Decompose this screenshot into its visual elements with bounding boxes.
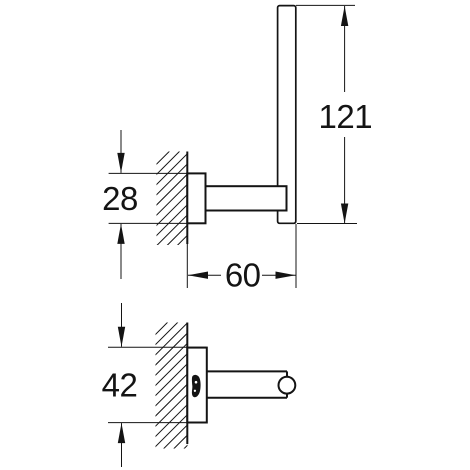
dimension 42 top extension line <box>108 346 207 348</box>
dimension 121 top extension line <box>296 4 355 6</box>
dimension 60 right extension line <box>295 224 297 288</box>
dimension 28 upper pointer with down arrow <box>117 130 124 173</box>
dimension 28 top extension line <box>109 172 187 174</box>
dimension 60 line with right arrow <box>262 272 296 279</box>
dimension 121 bottom extension line <box>297 223 357 225</box>
svg-text:42: 42 <box>102 367 138 404</box>
GROHE logo on plate (view 2) <box>192 375 201 397</box>
wall face line (view 2) <box>186 323 188 445</box>
dimension 28 lower pointer with up arrow <box>117 224 124 279</box>
wall plate (view 2) <box>187 348 207 423</box>
dimension 60 line with left arrow <box>188 272 221 279</box>
svg-text:60: 60 <box>225 256 261 293</box>
dimension 42 bottom extension line <box>108 422 207 424</box>
wall hatching (view 1) <box>130 91 230 303</box>
svg-text:28: 28 <box>102 180 138 217</box>
wall plate (view 1) <box>187 173 205 223</box>
dimension 121 line upper segment with up arrow <box>341 6 348 92</box>
dimension 42 upper pointer with down arrow <box>118 303 125 347</box>
arm (view 1) <box>206 186 287 210</box>
vertical bar (holder rod, view 1) <box>278 6 296 224</box>
dimension 60 left extension line (wall face continuation) <box>186 244 188 288</box>
svg-text:121: 121 <box>319 98 373 135</box>
bar end circle (view 2) <box>279 377 296 394</box>
arm seen from above (view 2) <box>207 371 288 397</box>
dimension 28 bottom extension line <box>109 222 187 224</box>
wall face line (view 1) <box>186 152 188 245</box>
dimension 121 line lower segment with down arrow <box>341 137 348 224</box>
dimension 42 lower pointer with up arrow <box>118 423 125 467</box>
wall hatching (view 2) <box>130 260 230 470</box>
